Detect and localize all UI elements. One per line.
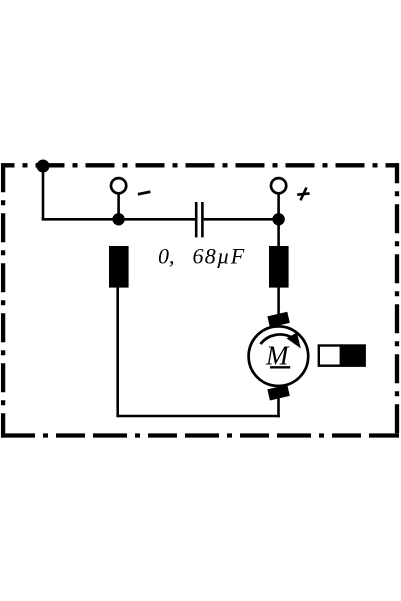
capacitor C plates [196,202,202,237]
rotation arrow arc [260,334,293,344]
wire: stub from plus terminal to bus [277,193,280,219]
label minus [138,192,151,194]
wire from chassis node down [42,166,45,221]
svg-text:M: M [265,340,290,370]
wire: horizontal bus left segment [42,218,195,221]
motor M body [249,326,309,386]
connector block black half [341,344,366,367]
junction dot right [272,213,284,225]
wire: right resistor to motor top brush [277,287,280,317]
label plus [297,188,309,201]
terminal minus (open circle) [111,178,126,193]
junction dot left [112,213,124,225]
svg-text:68µF: 68µF [193,243,246,268]
chassis boundary left (dash-dot) [1,163,5,437]
resistor left (suppression element) [109,246,129,288]
motor brush top [267,312,289,328]
wire: motor bottom brush down [277,397,280,417]
motor label underline [270,366,290,368]
chassis boundary right (dash-dot) [395,163,399,437]
chassis boundary top (dash-dot) [1,163,399,167]
chassis boundary bottom (dash-dot) [1,433,399,437]
resistor right (suppression element) [269,246,289,288]
wire: stub from minus terminal to bus [117,193,120,219]
svg-text:0,: 0, [158,243,175,268]
motor brush bottom [267,385,289,401]
terminal plus (open circle) [271,178,286,193]
wire: horizontal bus right segment [204,218,279,221]
wire: left vertical return [116,287,119,417]
wire: right junction down to right resistor [277,219,280,247]
wire: bottom return horizontal [118,415,280,418]
node: chassis connection dot [37,160,50,173]
rotation arrow head [287,333,301,349]
connector block white half [319,346,341,366]
